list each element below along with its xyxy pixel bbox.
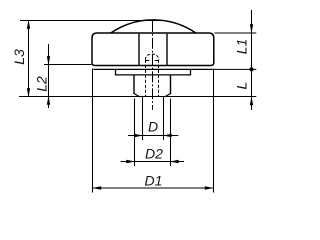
arrow D2 left (right-pointing, outside) xyxy=(126,160,135,163)
extension line D right xyxy=(163,97,165,141)
svg-text:L3: L3 xyxy=(11,49,27,65)
arrow L2 bottom (up, outside) xyxy=(47,96,50,105)
boss left edge xyxy=(133,75,135,94)
extension line flange top right (for L1/L) xyxy=(212,68,256,70)
knob body (rounded rectangle wings) xyxy=(92,33,214,66)
svg-text:D2: D2 xyxy=(145,145,163,161)
svg-text:D1: D1 xyxy=(145,173,163,189)
hidden thread hole left (dashed) xyxy=(145,60,147,96)
arrow L1 top (down, outside) xyxy=(250,24,253,33)
svg-text:D: D xyxy=(148,119,158,135)
body bottom face line / flange top xyxy=(94,68,213,70)
hidden thread end tick right xyxy=(155,60,159,62)
extension line dome top (tangent, for L3) xyxy=(20,20,160,22)
boss right chamfer xyxy=(165,93,171,96)
dimension L1 and L shared line (right) xyxy=(251,10,253,110)
extension line bottom of boss (for L3, L2, L) xyxy=(19,96,256,98)
dimension D2 line xyxy=(121,161,185,163)
svg-text:L1: L1 xyxy=(234,39,250,55)
extension line D1 left xyxy=(92,69,94,193)
arrow L3 bottom (down) xyxy=(27,88,30,97)
flange left edge xyxy=(115,69,117,75)
extension line L2 top (body underside) xyxy=(44,64,92,66)
centerline (vertical axis) xyxy=(152,21,154,110)
dimension D1 line xyxy=(93,187,214,189)
arrow L3 top (up) xyxy=(27,20,30,29)
svg-text:L: L xyxy=(234,82,250,90)
hidden thread hole right (dashed) xyxy=(158,60,160,96)
arrow L2 top (down, outside) xyxy=(47,56,50,65)
extension line body top right (for L1) xyxy=(215,32,257,34)
extension line D1 right xyxy=(213,69,215,193)
extension line D left xyxy=(142,97,144,141)
arrow D1 left (left-pointing, inside) xyxy=(93,186,102,189)
arrow D left (right-pointing, outside) xyxy=(134,134,143,137)
hub right edge xyxy=(166,34,168,66)
hidden thread hole rounded top (dashed) xyxy=(146,54,159,60)
extension line D2 right xyxy=(170,99,172,167)
dimension L2 line xyxy=(48,44,50,108)
dimension L3 line xyxy=(28,21,30,97)
hidden thread end tick left xyxy=(146,60,150,62)
svg-text:L2: L2 xyxy=(33,76,49,92)
arrow D right (left-pointing, outside) xyxy=(163,134,172,137)
arrow D2 right (left-pointing, outside) xyxy=(170,160,179,163)
boss right edge xyxy=(170,75,172,94)
boss left chamfer xyxy=(134,93,140,96)
flange right edge xyxy=(190,69,192,75)
arrow D1 right (right-pointing, inside) xyxy=(205,186,214,189)
dimension D line xyxy=(128,135,178,137)
arrow L bottom (up, outside) xyxy=(250,97,253,106)
dome arc on top of knob xyxy=(111,20,196,33)
hub left edge xyxy=(138,34,140,66)
extension line D2 left xyxy=(134,99,136,167)
flange bottom line xyxy=(115,74,191,76)
node dot L1/L junction xyxy=(250,67,254,71)
